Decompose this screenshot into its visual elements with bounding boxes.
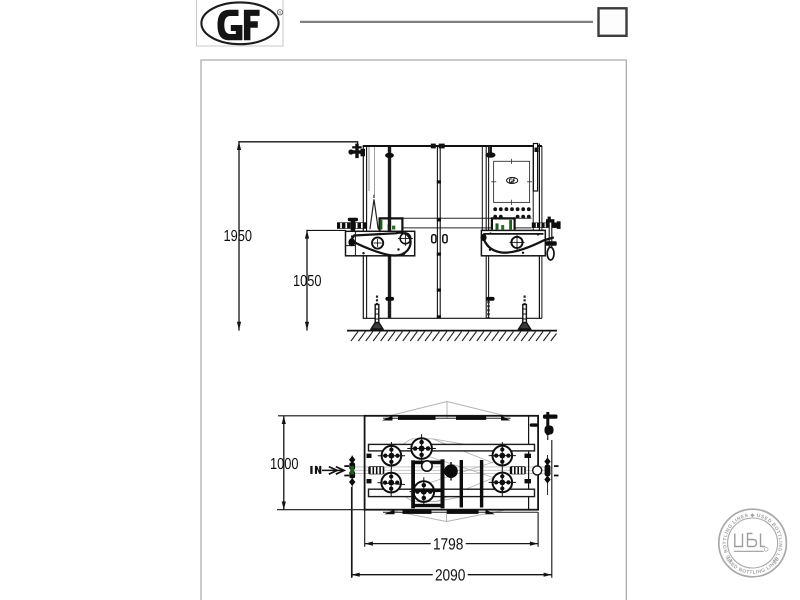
dim 1050 extension line top xyxy=(307,229,346,231)
right bar knob xyxy=(486,297,495,301)
left labelling station box xyxy=(346,231,415,256)
dim 2090 extensions xyxy=(351,487,353,578)
left vertical bar xyxy=(388,147,391,318)
IN label xyxy=(310,466,312,474)
outfeed clamp bar xyxy=(545,241,557,246)
IN arrow xyxy=(322,469,344,471)
infeed shaft plan xyxy=(351,456,353,578)
guide triangle top xyxy=(386,402,509,419)
top rail xyxy=(369,444,535,451)
right wall xyxy=(538,144,540,319)
pulley left bottom xyxy=(378,469,405,496)
plan top-right clamp xyxy=(530,412,558,435)
GF logo letter F xyxy=(244,10,260,41)
panel right edge xyxy=(532,146,534,231)
left station bolts xyxy=(351,233,405,255)
carriage black drum xyxy=(444,464,458,478)
panel mini GF logo xyxy=(507,177,518,183)
dim 1798 label xyxy=(431,537,466,550)
GF control panel frame xyxy=(494,161,530,202)
guide triangle bottom xyxy=(388,510,505,522)
infeed coil xyxy=(368,466,384,474)
right station bolts xyxy=(489,232,539,254)
plan inner right partition xyxy=(528,416,530,510)
door top hinges xyxy=(431,144,436,149)
pulley mid bottom xyxy=(410,477,439,506)
logo box frame xyxy=(197,0,284,46)
left station belt xyxy=(351,233,411,256)
dim 1000 extension top xyxy=(278,415,365,417)
svg-text:1798: 1798 xyxy=(433,535,464,553)
pulley mid top xyxy=(407,434,436,463)
right door top clamp xyxy=(489,146,492,155)
right leveling screw xyxy=(487,301,489,318)
pulley right bottom xyxy=(489,469,516,496)
left infeed conveyor band xyxy=(337,222,367,229)
left bracket green parts xyxy=(380,220,383,230)
outfeed clamp stem xyxy=(549,222,552,247)
left belt end roller xyxy=(348,238,355,246)
left leveling screw xyxy=(388,301,390,318)
door centerline xyxy=(436,146,438,318)
outfeed coil plan xyxy=(510,466,526,474)
pulley right top xyxy=(489,442,516,469)
dim 1950 line xyxy=(238,142,240,330)
panel corner ticks xyxy=(491,159,532,205)
outfeed side ticks xyxy=(554,465,559,467)
dim 1050 line xyxy=(306,230,308,330)
right station belt xyxy=(483,236,554,252)
infeed side ticks xyxy=(344,465,349,467)
left infeed post xyxy=(351,220,356,231)
button dots row 1 xyxy=(493,207,530,211)
belt wrap guide lines xyxy=(382,439,513,502)
centering cone xyxy=(370,199,378,229)
right bracket green parts xyxy=(496,223,499,229)
right channel xyxy=(533,144,537,192)
outfeed coupling circle xyxy=(533,466,542,475)
outfeed clamp loop xyxy=(547,247,554,260)
dim 2090 label xyxy=(433,568,468,581)
right station pulley xyxy=(511,237,522,248)
header checkbox square xyxy=(599,8,627,36)
left station divider xyxy=(354,231,356,256)
right label head bracket xyxy=(492,218,515,229)
GF logo ellipse xyxy=(201,2,278,44)
dim 2090 line xyxy=(352,574,552,576)
center carriage cross bars xyxy=(415,461,441,465)
header divider line xyxy=(300,21,593,23)
dim 1798 extensions xyxy=(364,510,366,547)
left inner guide lines xyxy=(368,147,370,191)
stamp outer ring xyxy=(719,509,787,577)
right door edge xyxy=(481,146,483,231)
conveyor lines through doors xyxy=(403,217,532,219)
ground hatching xyxy=(351,332,557,341)
carriage small circle xyxy=(422,461,432,471)
GF logo letter G xyxy=(218,10,243,41)
registered mark xyxy=(277,10,282,15)
left station pulley xyxy=(400,233,411,244)
dim 1000 line xyxy=(283,416,285,510)
right belt end roller xyxy=(481,234,487,241)
conveyor path lines xyxy=(353,467,551,474)
left label head bracket xyxy=(380,218,403,230)
left bar top knob xyxy=(385,153,394,158)
top left clamp xyxy=(348,144,365,159)
pulley left top xyxy=(378,442,405,469)
ground line xyxy=(347,330,557,332)
right vertical bar xyxy=(485,146,487,318)
left bar bottom knob xyxy=(385,297,394,301)
channel top pin xyxy=(535,148,539,153)
drawing sheet border xyxy=(201,60,626,600)
cabinet left wall xyxy=(362,146,364,318)
svg-text:1050: 1050 xyxy=(293,273,322,290)
cabinet top edge xyxy=(363,145,542,147)
dim 1000 extension bottom xyxy=(277,509,538,511)
right machine foot xyxy=(519,296,531,330)
dim 1950 extension line top xyxy=(239,142,358,149)
door hinge marks xyxy=(437,180,441,318)
bottom rail xyxy=(369,489,535,496)
right outfeed conveyor band xyxy=(532,223,561,228)
center carriage vertical bars xyxy=(411,459,483,508)
door handles xyxy=(432,235,436,243)
cabinet bottom edge xyxy=(363,317,542,319)
stamp inner ring xyxy=(728,518,778,568)
bottom door bar xyxy=(383,511,538,513)
right labelling station box xyxy=(481,230,545,255)
svg-text:2090: 2090 xyxy=(435,566,466,584)
frame side tabs xyxy=(367,454,532,484)
stamp UBL letters xyxy=(735,534,765,547)
dim 1798 line xyxy=(365,543,538,545)
outfeed top block xyxy=(546,219,554,223)
svg-text:1000: 1000 xyxy=(270,456,299,473)
vertical bar through bracket xyxy=(388,219,391,232)
top door bar xyxy=(383,417,511,419)
button dots row 2 xyxy=(493,215,530,219)
plan frame xyxy=(365,416,538,510)
svg-text:R: R xyxy=(278,10,281,15)
svg-text:1950: 1950 xyxy=(224,228,253,245)
left station roller circle xyxy=(372,237,383,248)
outfeed shaft plan xyxy=(547,455,549,495)
left machine foot xyxy=(371,296,383,330)
